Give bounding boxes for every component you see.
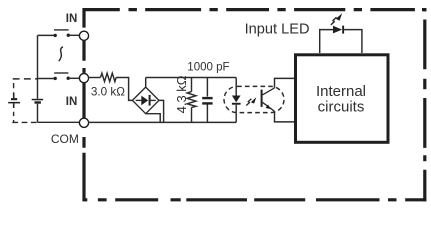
wire: S1 to IN terminal — [68, 34, 79, 36]
svg-text:1000 pF: 1000 pF — [187, 61, 229, 73]
terminal IN (top) — [79, 31, 88, 40]
input LED light arrow — [331, 13, 342, 25]
switch S2 (bottom) — [54, 73, 70, 80]
internal circuits box — [296, 55, 389, 143]
capacitor C1 1000 pF — [202, 78, 212, 123]
external supply dashed box top edge — [13, 78, 38, 80]
module dashed border bottom — [84, 198, 426, 201]
svg-text:4.3 kΩ: 4.3 kΩ — [174, 75, 189, 113]
wire: R1 to bridge left corner — [116, 78, 132, 101]
wire: S2 to IN terminal — [68, 77, 79, 79]
svg-text:IN: IN — [66, 13, 78, 25]
svg-text:circuits: circuits — [318, 98, 365, 115]
battery B1 on dashed edge — [8, 93, 20, 108]
wire: bus to switch S1 — [38, 34, 56, 36]
bridge inner diode — [136, 95, 156, 106]
wire: bridge top corner riser to top rail — [145, 78, 147, 88]
switch S1 (top) — [54, 30, 71, 37]
input LED D2 — [320, 26, 362, 53]
svg-text:Input LED: Input LED — [245, 21, 310, 37]
external supply dashed box left edge — [13, 83, 15, 98]
svg-text:3.0 kΩ: 3.0 kΩ — [91, 86, 125, 99]
mechanical link squiggle — [59, 47, 63, 61]
wire: supply bus vertical — [37, 35, 39, 122]
bridge rectifier D1 diamond — [132, 87, 159, 114]
optocoupler LED branch — [232, 78, 241, 123]
wire: COM return from supply — [38, 121, 80, 123]
resistor R2 4.3 kOhm vertical — [191, 78, 193, 92]
module dashed border right — [423, 8, 426, 201]
wire: IN terminal to resistor R1 — [89, 77, 101, 79]
resistor R1 3.0 kOhm zigzag — [101, 73, 117, 81]
svg-text:IN: IN — [66, 96, 78, 108]
optocoupler dashed outline — [224, 86, 284, 112]
terminal IN (bottom) — [79, 74, 88, 83]
wire: collector to internal circuits — [275, 78, 295, 88]
svg-text:COM: COM — [51, 132, 79, 146]
wire: emitter to internal circuits — [275, 111, 295, 122]
terminal COM — [79, 118, 88, 127]
wire: bridge right corner drop — [159, 100, 164, 122]
wire: bridge bottom corner step — [146, 114, 161, 123]
wire: top rail — [146, 77, 237, 79]
external supply dashed box bottom edge — [12, 121, 37, 123]
module dashed border top — [84, 8, 426, 11]
opto light arrow — [246, 97, 256, 105]
wire: bottom rail from COM to LED branch — [89, 121, 237, 123]
module dashed border left segments — [82, 8, 85, 201]
battery B2 on bus — [32, 99, 43, 104]
wire: bus to switch S2 — [38, 78, 56, 80]
phototransistor Q1 — [261, 88, 275, 111]
